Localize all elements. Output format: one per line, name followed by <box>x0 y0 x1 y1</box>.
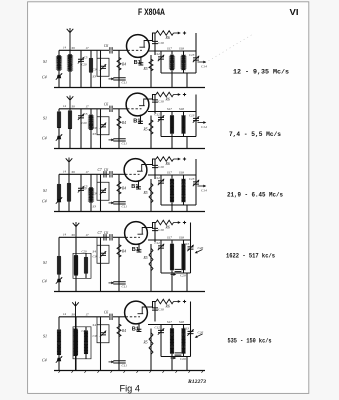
svg-text:C7: C7 <box>98 231 102 235</box>
svg-text:C12: C12 <box>155 113 161 117</box>
antenna A5 <box>72 302 79 317</box>
wire output box right drop block 2 <box>186 137 188 149</box>
capacitor C12 block 4 <box>160 240 162 273</box>
capacitor C11 block 2 <box>113 139 125 141</box>
svg-text:C20: C20 <box>82 121 88 125</box>
capacitor C13 block 4 <box>190 240 192 273</box>
inductor S8 block 2 <box>183 112 185 137</box>
svg-text:S17: S17 <box>167 107 172 111</box>
svg-text:C11: C11 <box>122 80 128 84</box>
svg-text:F X804A: F X804A <box>138 7 165 17</box>
wire output box bottom block 1 <box>161 72 196 74</box>
ground rail ticks block 5 <box>58 371 203 373</box>
svg-text:VI: VI <box>290 7 299 17</box>
svg-text:S4: S4 <box>93 249 97 253</box>
svg-text:S1: S1 <box>43 333 47 338</box>
resistor R4 block 4 <box>118 237 120 291</box>
capacitor C5 block 1 <box>80 50 82 87</box>
wire grid lead block 5 <box>101 316 110 318</box>
svg-text:535 - 150 kc/s: 535 - 150 kc/s <box>228 338 272 345</box>
inductor S1 block 4 <box>58 237 60 291</box>
svg-text:S9: S9 <box>72 104 76 108</box>
inductor S4 block 4 <box>85 253 87 278</box>
resistor R5 block 4 <box>150 244 152 292</box>
resistor R5 block 2 <box>150 116 152 149</box>
supply + block 4 <box>174 222 180 224</box>
capacitor C12 block 5 <box>160 325 162 357</box>
svg-text:C10: C10 <box>158 228 164 232</box>
svg-text:S1: S1 <box>43 260 47 265</box>
svg-text:C9: C9 <box>93 191 97 195</box>
svg-text:14: 14 <box>63 312 67 316</box>
svg-text:R6: R6 <box>165 98 170 102</box>
wire output box top block 5 <box>148 324 191 326</box>
svg-text:C4: C4 <box>42 199 47 204</box>
inductor S2 block 2 <box>69 109 71 149</box>
capacitor C13 block 3 <box>195 175 197 205</box>
wire grid lead block 3 <box>101 173 110 175</box>
wire output right vertical block 1 <box>195 33 197 51</box>
svg-text:R5: R5 <box>143 128 148 132</box>
inductor S3 block 3 <box>90 174 92 211</box>
wire output box right drop block 4 <box>186 273 188 292</box>
capacitor C6 block 5 <box>110 314 112 320</box>
svg-text:C11: C11 <box>122 204 128 208</box>
capacitor C10 block 4 <box>152 228 158 230</box>
capacitor C7 block 3 <box>104 171 106 177</box>
svg-text:R4: R4 <box>121 329 126 333</box>
supply + block 3 <box>174 158 180 160</box>
trimmer capacitor C4 block 4 <box>57 279 61 283</box>
wire cathode lead block 4 <box>138 243 140 252</box>
capacitor C6 block 3 <box>110 171 112 177</box>
svg-text:C4: C4 <box>42 358 47 363</box>
capacitor C9 block 2 <box>97 109 109 135</box>
capacitor C10 block 5 <box>152 308 158 310</box>
svg-text:C20: C20 <box>82 249 88 253</box>
svg-text:S9: S9 <box>72 233 76 237</box>
wire cathode lead block 1 <box>140 56 142 65</box>
wire output box top block 2 <box>148 111 196 113</box>
svg-text:17: 17 <box>86 104 90 108</box>
svg-text:C10: C10 <box>158 165 164 169</box>
trimmer capacitor C4 block 2 <box>57 136 61 140</box>
svg-text:C13: C13 <box>189 114 195 118</box>
svg-text:S1: S1 <box>43 59 47 64</box>
output coupling C14 block 2 <box>198 122 205 124</box>
inductor S2 block 1 <box>69 50 71 87</box>
resistor R5 block 5 <box>150 329 152 371</box>
svg-text:R5: R5 <box>143 191 148 195</box>
svg-text:S9: S9 <box>72 170 76 174</box>
tube B1 block 1 <box>126 35 149 58</box>
coupling box block 5 <box>73 327 91 359</box>
capacitor C12 block 1 <box>160 51 162 73</box>
svg-text:C11: C11 <box>122 141 128 145</box>
svg-text:S1: S1 <box>43 115 47 120</box>
svg-text:C10: C10 <box>158 100 164 104</box>
svg-text:C26: C26 <box>198 331 204 335</box>
svg-text:C7: C7 <box>98 168 102 172</box>
svg-text:C20: C20 <box>82 186 88 190</box>
wire output box bottom block 3 <box>161 204 196 206</box>
svg-text:R4: R4 <box>121 62 126 66</box>
svg-text:C13: C13 <box>184 327 190 331</box>
svg-text:S18: S18 <box>179 47 184 51</box>
svg-text:C6: C6 <box>104 102 108 106</box>
svg-text:R5: R5 <box>143 341 148 345</box>
svg-text:S17: S17 <box>167 236 172 240</box>
wire cathode lead block 2 <box>140 115 142 124</box>
trimmer capacitor C4 block 3 <box>57 199 61 203</box>
svg-text:Fig 4: Fig 4 <box>120 384 141 395</box>
trimmer capacitor C4 block 5 <box>57 358 61 362</box>
wire tank top rail block 5 <box>59 316 101 318</box>
svg-text:S9: S9 <box>72 46 76 50</box>
svg-text:S18: S18 <box>179 171 184 175</box>
wire output box right drop block 3 <box>186 205 188 212</box>
capacitor C10 block 2 <box>152 100 158 102</box>
capacitor C11 block 3 <box>113 202 125 204</box>
svg-text:C6: C6 <box>104 44 108 48</box>
capacitor C12 block 3 <box>160 175 162 205</box>
wire cathode lead block 3 <box>138 180 140 189</box>
wire grid lead block 1 <box>101 49 110 51</box>
antenna A1 <box>67 28 74 50</box>
svg-text:C13: C13 <box>189 53 195 57</box>
wire screen drop block 2 <box>154 95 156 114</box>
wire tank right vertical block 4 <box>100 237 102 291</box>
supply + block 1 <box>174 32 180 34</box>
ground rail block 5 <box>54 370 205 372</box>
wire tank top rail block 1 <box>59 49 101 51</box>
wire output box right drop block 1 <box>186 73 188 88</box>
svg-text:C4: C4 <box>42 75 47 80</box>
inductor S7 block 1 <box>171 51 173 88</box>
wire tank top rail block 2 <box>59 108 101 110</box>
tube B1 block 2 <box>126 93 149 116</box>
wire output box top block 4 <box>148 239 191 241</box>
resistor R4 block 5 <box>118 317 120 371</box>
output coupling C14 block 3 <box>198 185 205 187</box>
inductor S7 block 5 <box>171 325 173 371</box>
svg-text:14: 14 <box>63 170 67 174</box>
capacitor C11 block 5 <box>113 361 125 363</box>
ground rail block 2 <box>54 148 205 150</box>
svg-text:C29: C29 <box>180 274 186 278</box>
tube B1 block 3 <box>124 159 147 182</box>
inductor S7 block 3 <box>171 175 173 212</box>
inductor S8 block 3 <box>183 175 185 205</box>
svg-text:S3: S3 <box>93 132 97 136</box>
svg-text:S9: S9 <box>72 312 76 316</box>
svg-text:12 - 9,35 Mc/s: 12 - 9,35 Mc/s <box>233 69 289 76</box>
svg-text:R5: R5 <box>143 256 148 260</box>
wire output right vertical block 4 <box>190 223 192 241</box>
svg-text:17: 17 <box>86 233 90 237</box>
svg-text:C20: C20 <box>82 329 88 333</box>
capacitor C10 block 3 <box>152 165 158 167</box>
svg-text:R4: R4 <box>121 249 126 253</box>
svg-text:S17: S17 <box>167 320 172 324</box>
inductor S3 block 2 <box>90 109 92 149</box>
output coupling C26 block 4 <box>196 250 203 253</box>
svg-text:S3: S3 <box>93 204 97 208</box>
svg-text:C29: C29 <box>180 357 186 361</box>
wire plate lead block 2 <box>149 95 156 100</box>
inductor S3 block 1 <box>90 50 92 87</box>
svg-text:R5: R5 <box>143 67 148 71</box>
svg-text:S18: S18 <box>179 236 184 240</box>
inductor S1 block 5 <box>58 317 60 371</box>
svg-text:C12: C12 <box>155 326 161 330</box>
svg-text:C6: C6 <box>104 310 108 314</box>
inductor S7 block 4 <box>171 240 173 292</box>
wire plate lead block 4 <box>147 223 156 228</box>
svg-text:S17: S17 <box>167 171 172 175</box>
svg-text:C5: C5 <box>84 112 88 116</box>
svg-text:14: 14 <box>63 233 67 237</box>
svg-text:17: 17 <box>86 170 90 174</box>
svg-text:C20: C20 <box>82 62 88 66</box>
capacitor C5 block 2 <box>80 109 82 149</box>
inductor S3 block 5 <box>75 317 77 371</box>
svg-text:R4: R4 <box>121 121 126 125</box>
svg-text:R6: R6 <box>165 162 170 166</box>
svg-text:C9: C9 <box>93 334 97 338</box>
svg-text:C9: C9 <box>93 126 97 130</box>
ground rail block 3 <box>54 211 205 213</box>
output coupling C26 block 5 <box>196 334 203 337</box>
svg-text:C5: C5 <box>84 55 88 59</box>
svg-text:S18: S18 <box>179 107 184 111</box>
wire screen drop block 5 <box>154 302 156 322</box>
wire output right vertical block 3 <box>195 159 197 175</box>
inductor S7 block 2 <box>171 112 173 149</box>
leader line block 1 <box>205 34 253 63</box>
wire output right vertical block 5 <box>190 302 192 325</box>
inductor S1 block 1 <box>58 50 60 87</box>
svg-text:C13: C13 <box>189 177 195 181</box>
svg-text:C11: C11 <box>122 284 128 288</box>
inductor S1 block 3 <box>58 174 60 211</box>
capacitor C9 block 4 <box>97 237 109 263</box>
inductor S1 block 2 <box>58 109 60 149</box>
svg-text:C10: C10 <box>158 41 164 45</box>
svg-text:7,4 - 5,5 Mc/s: 7,4 - 5,5 Mc/s <box>229 131 281 138</box>
tube B1 block 4 <box>125 222 148 245</box>
resistor R6 block 3 <box>156 157 174 162</box>
svg-text:17: 17 <box>86 312 90 316</box>
capacitor C6 block 1 <box>110 47 112 53</box>
resistor R6 block 2 <box>156 92 174 97</box>
wire output box right drop block 5 <box>186 357 188 371</box>
svg-text:R6: R6 <box>165 305 170 309</box>
capacitor C12 block 2 <box>160 112 162 137</box>
wire output box top block 3 <box>148 174 196 176</box>
wire grid lead block 4 <box>101 236 110 238</box>
svg-text:S17: S17 <box>167 47 172 51</box>
svg-text:S3: S3 <box>93 74 97 78</box>
coupling box block 4 <box>73 253 91 278</box>
capacitor C11 block 4 <box>113 282 125 284</box>
svg-text:14: 14 <box>63 104 67 108</box>
svg-text:R12273: R12273 <box>187 379 206 385</box>
wire tank top rail block 4 <box>59 236 101 238</box>
svg-text:C14: C14 <box>201 125 207 129</box>
svg-text:C4: C4 <box>42 279 47 284</box>
wire plate lead block 1 <box>149 33 156 41</box>
capacitor C10 block 1 <box>152 41 158 43</box>
wire plate lead block 3 <box>147 159 156 165</box>
ground rail block 1 <box>54 87 205 89</box>
wire tank right vertical block 3 <box>100 174 102 211</box>
svg-text:C12: C12 <box>155 52 161 56</box>
wire screen drop block 3 <box>154 159 156 179</box>
capacitor C13 block 1 <box>195 51 197 73</box>
resistor R6 block 4 <box>156 220 174 225</box>
svg-text:C26: C26 <box>198 246 204 250</box>
wire output right vertical block 2 <box>195 95 197 112</box>
capacitor C9 block 5 <box>97 317 109 343</box>
output coupling C14 block 1 <box>198 61 205 63</box>
capacitor C9 block 3 <box>97 174 109 200</box>
capacitor C13 block 2 <box>195 112 197 137</box>
svg-text:14: 14 <box>63 46 67 50</box>
svg-text:17: 17 <box>86 46 90 50</box>
tube B1 block 5 <box>125 301 148 324</box>
wire tank right vertical block 2 <box>100 109 102 149</box>
wire plate lead block 5 <box>147 302 156 308</box>
svg-text:S18: S18 <box>179 320 184 324</box>
inductor S8 block 1 <box>183 51 185 73</box>
wire tank top rail block 3 <box>59 173 101 175</box>
svg-text:C10: C10 <box>158 308 164 312</box>
wire output box bottom block 5 <box>161 356 191 358</box>
trimmer capacitor C4 block 1 <box>57 75 61 79</box>
inductor S4 block 5 <box>85 327 87 359</box>
svg-text:S1: S1 <box>43 188 47 193</box>
antenna A3 <box>66 158 73 175</box>
wire tank right vertical block 1 <box>100 50 102 87</box>
capacitor C11 block 1 <box>113 78 125 80</box>
antenna A2 <box>67 96 74 109</box>
capacitor C7 block 4 <box>104 234 106 240</box>
svg-text:C11: C11 <box>122 363 128 367</box>
svg-text:R6: R6 <box>165 36 170 40</box>
inductor S2 block 4 <box>75 237 77 291</box>
svg-text:C13: C13 <box>184 242 190 246</box>
inductor S2 block 5 <box>75 317 77 371</box>
wire screen drop block 1 <box>154 33 156 55</box>
svg-text:C9: C9 <box>93 254 97 258</box>
capacitor C13 block 5 <box>190 325 192 357</box>
antenna A4 <box>73 222 80 237</box>
wire cathode lead block 5 <box>138 323 140 332</box>
svg-text:C14: C14 <box>201 189 207 193</box>
capacitor C6 block 4 <box>110 234 112 240</box>
resistor R5 block 1 <box>150 55 152 88</box>
capacitor C6 block 2 <box>110 106 112 112</box>
resistor R4 block 1 <box>118 50 120 87</box>
svg-text:1622 - 517 kc/s: 1622 - 517 kc/s <box>226 253 275 260</box>
wire output box top block 1 <box>148 50 196 52</box>
capacitor C5 block 3 <box>80 174 82 211</box>
inductor S2 block 3 <box>68 174 70 211</box>
wire output box bottom block 4 <box>161 272 191 274</box>
svg-text:C12: C12 <box>155 176 161 180</box>
supply + block 5 <box>174 301 180 303</box>
wire grid lead block 2 <box>101 108 110 110</box>
svg-text:C12: C12 <box>155 241 161 245</box>
svg-text:S4: S4 <box>93 323 97 327</box>
wire tank right vertical block 5 <box>100 317 102 371</box>
wire screen drop block 4 <box>154 223 156 243</box>
output coupling C14 block 4 <box>175 269 182 271</box>
ground rail block 4 <box>54 291 205 293</box>
output coupling C14 block 5 <box>175 353 182 355</box>
inductor S8 block 4 <box>183 240 185 273</box>
svg-text:C14: C14 <box>201 65 207 69</box>
svg-text:C4: C4 <box>42 136 47 141</box>
svg-text:R6: R6 <box>165 226 170 230</box>
resistor R6 block 1 <box>156 31 174 36</box>
svg-text:C9: C9 <box>93 67 97 71</box>
capacitor C9 block 1 <box>97 50 109 76</box>
resistor R6 block 5 <box>156 299 174 304</box>
supply + block 2 <box>174 94 180 96</box>
inductor S3 block 4 <box>75 237 77 291</box>
inductor S8 block 5 <box>183 325 185 357</box>
svg-text:21,9 - 6.45 Mc/s: 21,9 - 6.45 Mc/s <box>227 192 283 199</box>
resistor R4 block 2 <box>118 109 120 149</box>
svg-text:R4: R4 <box>121 186 126 190</box>
resistor R4 block 3 <box>118 174 120 211</box>
resistor R5 block 3 <box>150 179 152 212</box>
wire output box bottom block 2 <box>161 136 196 138</box>
